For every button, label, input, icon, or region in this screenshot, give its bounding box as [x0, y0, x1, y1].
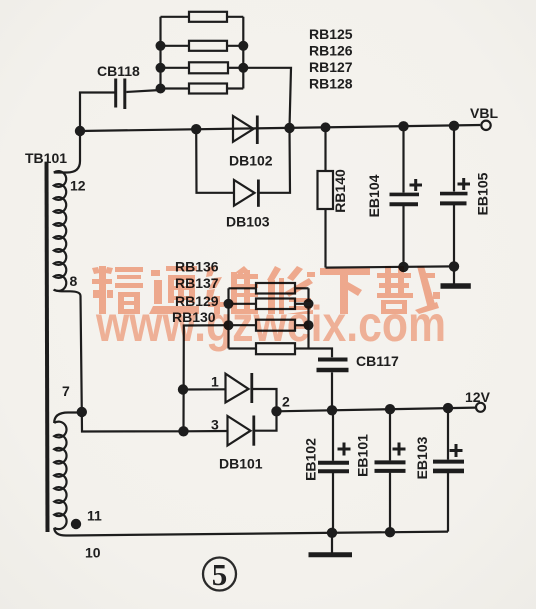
polarity plus EB104: [410, 179, 423, 191]
junction EB105 top: [449, 121, 459, 131]
wire tap 8 lead down to junction: [54, 290, 82, 413]
wire tap 7 lead: [54, 413, 82, 424]
node VBL rail (main top rail): [80, 125, 480, 131]
resistor RB125: [161, 12, 244, 22]
svg-text:DB101: DB101: [219, 456, 263, 472]
svg-text:CB117: CB117: [356, 353, 399, 369]
capacitor EB105: [440, 126, 468, 267]
diode DB103: [234, 180, 258, 207]
junction bank right R3: [238, 63, 248, 73]
ground (VBL section): [441, 266, 471, 286]
svg-text:EB101: EB101: [355, 434, 371, 477]
junction EB102 bottom / ground: [327, 528, 337, 538]
wire DB101 pin3 anode lead: [184, 430, 228, 432]
wire DB101 pin1 anode lead: [183, 388, 226, 390]
junction middle bank left R3: [224, 320, 234, 330]
diode DB101-3: [228, 416, 254, 446]
junction DB103 cathode / bank output: [284, 123, 294, 133]
resistor RB126: [161, 41, 244, 51]
junction EB101 top: [385, 404, 395, 414]
wire taps 7/8 common node to DB101: [82, 412, 184, 432]
resistor RB140: [318, 127, 334, 267]
diode DB102: [233, 116, 257, 145]
transformer phase dot pin 11: [71, 519, 81, 529]
svg-text:12V: 12V: [465, 389, 491, 405]
svg-text:11: 11: [87, 508, 102, 524]
svg-text:DB102: DB102: [229, 153, 273, 169]
transformer TB101 primary winding (pins 12-8): [54, 171, 66, 291]
ground (12V section): [309, 533, 353, 555]
polarity plus EB101: [393, 443, 406, 456]
resistor RB128: [161, 84, 244, 94]
polarity plus EB102: [338, 443, 351, 456]
wire CB118 right lead: [126, 90, 160, 92]
watermark char 1 (jing): [92, 266, 143, 314]
polarity plus EB105: [458, 178, 471, 190]
capacitor CB118: [116, 79, 125, 110]
wire tap 12 lead: [54, 131, 80, 173]
junction diode1 branch: [178, 384, 188, 394]
watermark char 6 (zai): [377, 266, 440, 314]
junction RB140 top: [321, 122, 331, 132]
svg-text:10: 10: [85, 545, 101, 561]
junction bank left R3: [156, 63, 166, 73]
junction middle bank left R2: [224, 299, 234, 309]
resistor RB130: [229, 343, 309, 354]
svg-text:EB103: EB103: [414, 436, 430, 479]
svg-text:CB118: CB118: [97, 63, 140, 79]
svg-text:3: 3: [211, 417, 219, 433]
svg-text:RB140: RB140: [332, 169, 348, 213]
svg-text:RB125: RB125: [309, 26, 353, 42]
svg-text:RB126: RB126: [309, 43, 353, 59]
junction middle bank right R3: [304, 320, 314, 330]
junction bank left R2: [156, 41, 166, 51]
svg-text:1: 1: [211, 374, 219, 390]
junction bank right R2: [238, 41, 248, 51]
capacitor EB103: [433, 408, 464, 531]
svg-text:DB103: DB103: [226, 214, 270, 230]
wire DB101 pin3 cathode to pin2 node: [254, 411, 277, 430]
svg-text:5: 5: [212, 557, 228, 592]
capacitor EB101: [375, 409, 406, 532]
wire bank output to VBL rail: [243, 68, 291, 128]
svg-text:7: 7: [62, 383, 70, 399]
junction bank left R4: [156, 84, 166, 94]
middle resistor bank left connector: [227, 288, 229, 348]
junction EB101 bottom: [385, 527, 395, 537]
svg-text:RB128: RB128: [309, 76, 353, 92]
capacitor CB117: [317, 360, 349, 411]
transformer TB101 secondary winding (pins 7-11-10): [54, 422, 66, 530]
terminal VBL: [481, 121, 490, 130]
resistor bank left connector: [159, 17, 161, 89]
svg-text:EB105: EB105: [475, 172, 491, 215]
resistor RB136: [229, 283, 309, 294]
watermark char 4 (xiu): [267, 266, 315, 314]
svg-text:www.gzweix.com: www.gzweix.com: [95, 296, 446, 352]
capacitor EB102: [318, 410, 349, 532]
junction EB104 bottom: [398, 262, 408, 272]
watermark char 3 (wei): [206, 266, 258, 314]
diode DB101-1: [226, 373, 252, 403]
junction diode3 branch: [178, 426, 188, 436]
watermark char 5 (xia): [320, 268, 370, 314]
junction EB104 top: [398, 121, 408, 131]
junction DB102/DB103 anode branch: [191, 124, 201, 134]
junction EB103 top: [443, 403, 453, 413]
svg-text:8: 8: [70, 273, 78, 289]
watermark: [92, 266, 446, 352]
wire DB103 right branch: [258, 128, 290, 193]
junction EB105 bottom / ground: [449, 261, 459, 271]
wire DB103 left branch: [196, 129, 234, 193]
node 12V rail: [277, 408, 476, 412]
watermark char 2 (tong): [149, 266, 199, 314]
capacitor EB104: [390, 126, 420, 267]
svg-text:12: 12: [70, 178, 86, 194]
junction middle bank right R2: [304, 299, 314, 309]
terminal 12V: [476, 403, 485, 412]
wire middle bank left exit: [184, 325, 229, 431]
resistor RB129: [229, 320, 309, 331]
junction taps 7/8: [77, 407, 87, 417]
svg-text:VBL: VBL: [470, 105, 498, 121]
wire winding bottom to ground rail: [54, 528, 70, 536]
resistor RB137: [229, 299, 309, 310]
transformer TB101 core: [47, 163, 48, 532]
middle resistor bank right connector: [307, 288, 309, 348]
figure number circled 5: [203, 557, 236, 592]
wire middle bank right exit to CB117: [309, 349, 333, 358]
svg-text:EB104: EB104: [366, 174, 382, 217]
wire CB118 left lead: [80, 93, 115, 132]
resistor RB127: [161, 62, 244, 73]
svg-text:2: 2: [282, 394, 290, 410]
wire DB101 pin1 cathode to pin2 node: [252, 389, 277, 411]
resistor bank right connector: [242, 17, 244, 89]
polarity plus EB103: [450, 444, 463, 457]
wire VBL section bottom rail: [326, 266, 455, 267]
svg-text:RB127: RB127: [309, 59, 353, 75]
junction DB101 pin2 node: [271, 406, 281, 416]
svg-text:TB101: TB101: [25, 150, 67, 166]
wire bottom ground rail: [70, 532, 448, 536]
junction CB117/EB102 top: [327, 405, 337, 415]
svg-text:EB102: EB102: [303, 438, 319, 481]
junction tap12/CB118/rail: [75, 126, 85, 136]
